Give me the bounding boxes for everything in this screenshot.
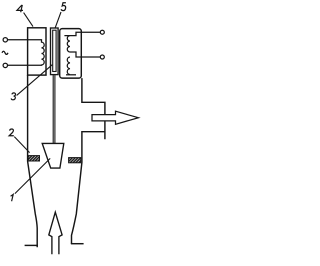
terminal T4 [100,55,104,59]
valve seat block 2 (left, hatched) [28,156,39,161]
coil (right) lower section [67,57,70,74]
armature core inner [53,30,56,71]
armature tube 5 outer [51,28,59,75]
valve cone 1 [42,143,64,168]
label 1 [11,194,14,201]
AC source symbol ~ [2,51,8,54]
outlet duct bottom + right wall lower [72,132,105,244]
leader 2 [14,137,29,153]
label 3 [11,93,15,100]
magnet yoke box 4 [28,28,46,75]
coil (right) top lead [64,32,100,35]
right bottom flange [71,243,84,245]
label 5 [61,3,66,11]
coil (right) upper section [67,36,70,52]
wire from T1 + coil 4 winding + wire to T2 [8,40,45,65]
label 4 [17,5,23,12]
leader 4 [24,13,33,27]
leader 1 [15,158,50,193]
leader 3 [17,65,53,96]
terminal T3 [100,30,104,34]
left bottom flange [25,244,38,246]
terminal T2 [3,63,7,67]
terminal T1 [3,38,7,42]
valve seat block (right, hatched) [69,158,81,163]
leader 5 [55,12,61,28]
magnet yoke box (right) [60,29,82,79]
coil (right) mid lead [70,52,100,57]
coil (right) bottom lead [66,74,76,76]
vessel right wall upper + outlet duct top + mouth flange [82,78,105,139]
inlet flow arrow (up) [49,212,62,254]
vessel left wall [28,75,38,247]
outlet flow arrow (right) [92,111,138,124]
rod from armature to cone [53,75,55,144]
label 2 [9,129,14,136]
